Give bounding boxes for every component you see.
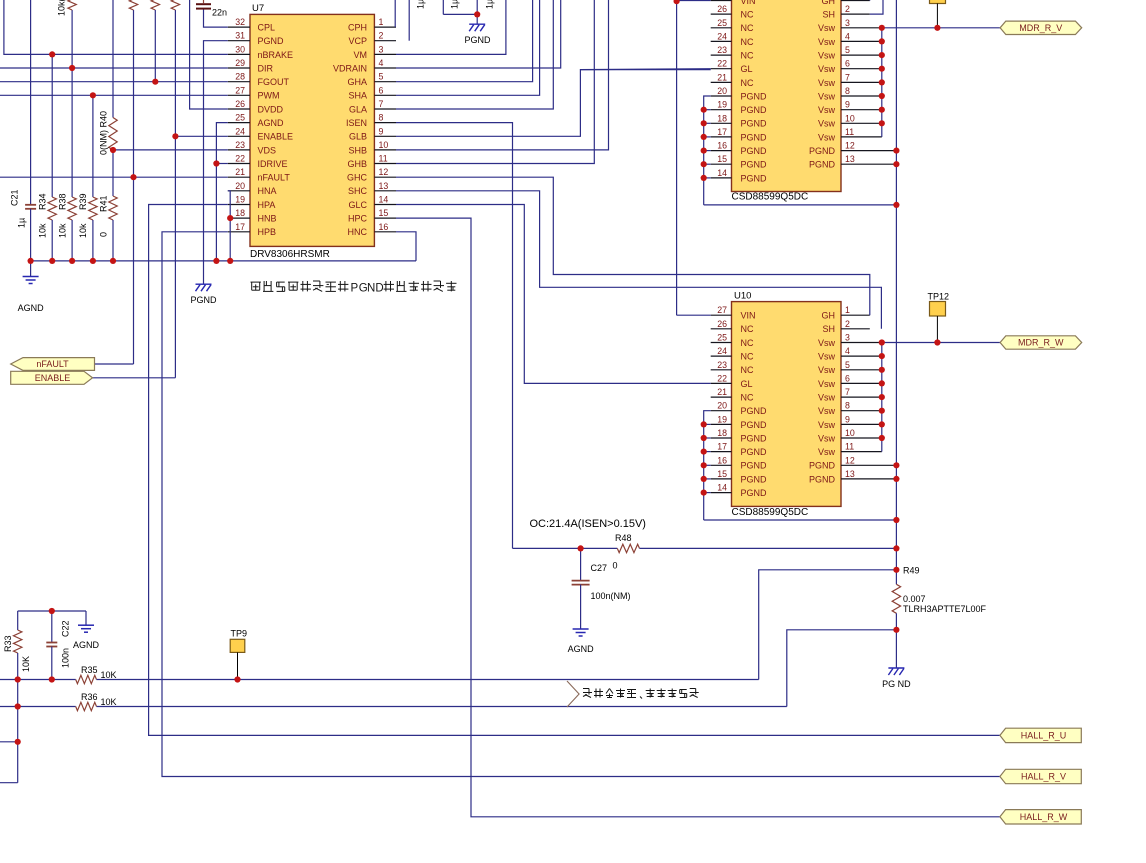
svg-text:nBRAKE: nBRAKE (258, 50, 294, 60)
svg-text:HALL_R_W: HALL_R_W (1020, 812, 1068, 822)
transistor module U10 CSD88599Q5DC body (732, 291, 842, 519)
wire PGND pin31 drop to PGND symbol (204, 41, 228, 285)
U10 pin 7 Vsw (right) (818, 387, 882, 402)
ground PGND symbol below U7 (190, 284, 217, 305)
U7 pin 8 ISEN (right) (346, 113, 396, 128)
svg-text:CSD88599Q5DC: CSD88599Q5DC (732, 507, 809, 518)
svg-text:C27: C27 (591, 563, 608, 573)
U7 pin 28 FGOUT (left) (228, 72, 290, 87)
wire nFAULT column (95, 10, 134, 364)
svg-text:22: 22 (235, 154, 245, 164)
svg-text:8: 8 (845, 401, 850, 411)
U7 pin 27 PWM (left) (228, 85, 280, 100)
wire MDR_R_W net from U10 Vsw pin3 (882, 342, 1000, 344)
svg-text:10k: 10k (38, 223, 48, 238)
capacitor (cut) column to PGND top (443, 0, 477, 14)
U7 pin 21 nFAULT (left) (228, 167, 291, 182)
svg-text:CSD88599Q5DC: CSD88599Q5DC (732, 192, 809, 203)
test point TP11 (cut at top) (930, 0, 946, 28)
svg-text:11: 11 (845, 127, 854, 137)
U10 pin 17 PGND (left) (711, 442, 767, 457)
wire GHC pin12 to U10 GH pin1 (396, 177, 870, 315)
svg-text:AGND: AGND (258, 118, 285, 128)
svg-text:PGND: PGND (809, 146, 836, 156)
wire AGND pin25 / IDRIVE pin22 riser (216, 123, 227, 261)
svg-text:ENABLE: ENABLE (35, 373, 71, 383)
svg-text:SH: SH (822, 324, 835, 334)
svg-text:7: 7 (379, 99, 384, 109)
svg-text:5: 5 (845, 360, 850, 370)
net flag HALL_R_V (1000, 769, 1081, 783)
svg-text:SHB: SHB (348, 145, 367, 155)
wire nFAULT row pin21 to left edge (0, 176, 228, 178)
U7 pin 5 GHA (right) (347, 72, 396, 87)
svg-text:Vsw: Vsw (818, 23, 836, 33)
svg-text:13: 13 (845, 469, 855, 479)
U10 pin 22 GL (left) (711, 373, 753, 388)
resistor R35 10K hall filter (0, 665, 759, 684)
op-amp U7 gate driver DRV8306HRSMR body (250, 3, 374, 260)
U9 pin 16 PGND (left) (711, 141, 767, 156)
svg-text:PGND: PGND (741, 488, 768, 498)
svg-text:PGND: PGND (464, 35, 491, 45)
wire U10 pin20 PGND hook (704, 411, 711, 425)
net flag HALL_R_W (1000, 810, 1081, 824)
svg-text:21: 21 (717, 72, 727, 82)
svg-text:GL: GL (741, 379, 753, 389)
U9 pin 8 Vsw (right) (818, 86, 882, 101)
svg-text:VIN: VIN (741, 0, 756, 6)
net flag MDR_R_W (1000, 336, 1082, 349)
svg-text:MDR_R_W: MDR_R_W (1018, 338, 1064, 348)
svg-text:AGND: AGND (18, 303, 45, 313)
svg-text:SH: SH (822, 10, 835, 20)
U7 pin 7 GLA (right) (349, 99, 396, 114)
U10 pin 20 PGND (left) (711, 401, 767, 416)
svg-text:Vsw: Vsw (818, 352, 836, 362)
U10 pin 15 PGND (left) (711, 469, 767, 484)
svg-text:IDRIVE: IDRIVE (258, 159, 288, 169)
svg-text:PGND: PGND (741, 105, 768, 115)
wire GHA pin5 riser (396, 0, 533, 82)
svg-text:Vsw: Vsw (818, 78, 836, 88)
svg-text:PGND: PGND (741, 420, 768, 430)
svg-text:30: 30 (235, 44, 245, 54)
svg-text:22n: 22n (212, 8, 227, 18)
svg-text:17: 17 (235, 222, 245, 232)
svg-text:GLB: GLB (349, 132, 367, 142)
svg-text:25: 25 (717, 333, 727, 343)
svg-text:DVDD: DVDD (258, 104, 284, 114)
capacitor C27 100n(NM) (572, 548, 631, 628)
svg-text:100n: 100n (61, 648, 71, 668)
U9 pin 3 Vsw (right) (818, 18, 882, 33)
capacitor C20 22n at top (196, 0, 227, 18)
svg-text:PGND: PGND (809, 461, 836, 471)
wire U9 GL pin22 row to GLB column (580, 68, 710, 71)
svg-text:R49: R49 (903, 566, 920, 576)
U10 pin 6 Vsw (right) (818, 373, 882, 388)
svg-text:PGND: PGND (741, 474, 768, 484)
wire VM pin3 riser (396, 0, 506, 54)
svg-text:Vsw: Vsw (818, 365, 836, 375)
svg-text:1µ: 1µ (485, 0, 495, 9)
capacitor (cut) second column to PGND top (477, 0, 494, 14)
svg-text:12: 12 (845, 455, 855, 465)
svg-text:24: 24 (717, 346, 727, 356)
svg-text:GHC: GHC (347, 173, 368, 183)
svg-text:24: 24 (717, 31, 727, 41)
svg-text:ISEN: ISEN (346, 118, 367, 128)
U9 pin 26 NC (left) (711, 4, 754, 19)
svg-text:1: 1 (845, 305, 850, 315)
U7 pin 12 GHC (right) (347, 167, 396, 182)
wire SHC pin13 to U10 SH pin2 (396, 191, 881, 329)
svg-text:PGND: PGND (741, 433, 768, 443)
svg-text:AGND: AGND (568, 644, 595, 654)
wire GHB pin11 riser (396, 0, 594, 164)
svg-text:25: 25 (717, 18, 727, 28)
svg-text:PG ND: PG ND (882, 679, 911, 689)
svg-text:R48: R48 (615, 533, 632, 543)
U9 pin 4 Vsw (right) (818, 31, 882, 46)
U9 pin 14 PGND (left) (711, 168, 767, 183)
svg-text:0.007: 0.007 (903, 594, 926, 604)
wire SHB pin10 riser (396, 0, 609, 150)
svg-text:9: 9 (379, 126, 384, 136)
U10 pin 12 PGND (right) (809, 455, 896, 470)
svg-text:31: 31 (235, 31, 245, 41)
U10 pin 21 NC (left) (711, 387, 754, 402)
svg-text:MDR_R_V: MDR_R_V (1019, 23, 1062, 33)
svg-text:16: 16 (379, 222, 389, 232)
svg-text:2: 2 (379, 31, 384, 41)
wire MDR_R_V net from U9 Vsw pin3 (882, 27, 1000, 29)
svg-text:16: 16 (717, 455, 727, 465)
svg-text:Vsw: Vsw (818, 420, 836, 430)
wire U9 SH pin2 riser (870, 0, 883, 14)
U10 pin 18 PGND (left) (711, 428, 767, 443)
svg-text:R38: R38 (58, 193, 68, 210)
svg-text:11: 11 (845, 442, 854, 452)
U10 pin 27 VIN (left) (711, 305, 756, 320)
pull resistor (cut) on nFAULT column (129, 0, 137, 10)
U9 pin 13 PGND (right) (809, 154, 896, 169)
svg-text:3: 3 (845, 333, 850, 343)
svg-text:27: 27 (235, 85, 245, 95)
U10 pin 9 Vsw (right) (818, 414, 882, 429)
svg-text:P: P (351, 283, 359, 295)
svg-text:GH: GH (822, 311, 836, 321)
U9 pin 15 PGND (left) (711, 154, 767, 169)
U9 pin 11 Vsw (right) (818, 127, 882, 142)
ground PGND symbol top right of U7 (464, 14, 491, 45)
resistor R36 10K hall filter (0, 692, 787, 711)
U9 pin 17 PGND (left) (711, 127, 767, 142)
svg-text:PGND: PGND (258, 36, 285, 46)
svg-text:Vsw: Vsw (818, 406, 836, 416)
svg-text:Vsw: Vsw (818, 91, 836, 101)
svg-text:HNB: HNB (258, 214, 277, 224)
svg-text:15: 15 (717, 469, 727, 479)
svg-text:1µ: 1µ (450, 0, 460, 9)
U7 pin 30 nBRAKE (left) (228, 44, 293, 59)
wire GLA pin7 riser (396, 0, 553, 109)
svg-text:7: 7 (845, 72, 850, 82)
U10 pin 24 NC (left) (711, 346, 754, 361)
transistor module U9 CSD88599Q5DC body (cut at top) (732, 0, 842, 203)
wire HNA pin20 to HNB pin18 to AGND bus (228, 191, 230, 261)
svg-text:nFAULT: nFAULT (258, 173, 291, 183)
wire GLC pin14 to U10 GL pin22 (396, 205, 711, 384)
U7 pin 2 VCP (right) (348, 31, 396, 46)
net flag MDR_R_V (1000, 21, 1082, 34)
U7 pin 32 CPL (left) (228, 17, 275, 32)
U10 pin 25 NC (left) (711, 333, 754, 348)
svg-text:HPC: HPC (348, 214, 368, 224)
wire R36 sense row to R49 bottom junction (787, 630, 897, 707)
wire U9 GH pin1 riser (869, 0, 871, 2)
svg-text:SHC: SHC (348, 186, 368, 196)
U10 pin 4 Vsw (right) (818, 346, 882, 361)
U10 pin 11 Vsw (right) (818, 442, 882, 457)
net flag ENABLE (11, 371, 93, 384)
svg-text:Vsw: Vsw (818, 447, 836, 457)
U9 pin 19 PGND (left) (711, 100, 767, 115)
U10 pin 3 Vsw (right) (818, 333, 882, 348)
wire GLB pin9 to U9 GL pin22 (396, 70, 711, 137)
svg-text:Vsw: Vsw (818, 393, 836, 403)
svg-text:18: 18 (235, 208, 245, 218)
U9 pin 9 Vsw (right) (818, 100, 882, 115)
U7 pin 23 VDS (left) (228, 140, 276, 155)
svg-text:20: 20 (717, 401, 727, 411)
svg-text:N: N (367, 283, 375, 295)
svg-text:19: 19 (717, 100, 727, 110)
svg-text:0: 0 (99, 232, 109, 237)
svg-text:32: 32 (235, 17, 245, 27)
wire HPA pin19 column to HALL_R_U row (149, 205, 1000, 736)
svg-text:R33: R33 (3, 635, 13, 652)
U10 pin 13 PGND (right) (809, 469, 896, 484)
svg-text:PGND: PGND (741, 91, 768, 101)
svg-text:Vsw: Vsw (818, 64, 836, 74)
wire U9 PGND bracket left (704, 110, 897, 205)
svg-text:1µ: 1µ (416, 0, 426, 9)
U9 pin 2 SH (right) (822, 4, 869, 19)
wire CPL pin32 to capacitor C20 (204, 10, 228, 28)
U7 pin 6 SHA (right) (348, 85, 396, 100)
svg-text:18: 18 (717, 428, 727, 438)
svg-text:CPL: CPL (258, 23, 276, 33)
wire HPC pin15 column to HALL_R_W row (396, 218, 1000, 817)
svg-text:7: 7 (845, 387, 850, 397)
svg-text:ENABLE: ENABLE (258, 132, 294, 142)
svg-text:14: 14 (379, 195, 389, 205)
wire U10 PGND bracket left (704, 424, 897, 520)
U9 pin 27 VIN (left) (711, 0, 756, 6)
svg-text:9: 9 (845, 100, 850, 110)
resistor R41 0 (99, 150, 118, 261)
svg-text:U7: U7 (252, 3, 264, 14)
svg-text:14: 14 (717, 168, 727, 178)
svg-text:13: 13 (379, 181, 389, 191)
svg-text:NC: NC (741, 365, 754, 375)
U9 pin 6 Vsw (right) (818, 59, 882, 74)
svg-text:C21: C21 (10, 189, 20, 206)
svg-text:16: 16 (717, 141, 727, 151)
U10 pin 19 PGND (left) (711, 414, 767, 429)
svg-text:R35: R35 (81, 665, 98, 675)
svg-text:HALL_R_U: HALL_R_U (1021, 731, 1067, 741)
svg-text:DRV8306HRSMR: DRV8306HRSMR (250, 249, 330, 260)
wire ENABLE column (93, 10, 228, 378)
svg-text:28: 28 (235, 72, 245, 82)
U7 pin 31 PGND (left) (228, 31, 284, 46)
wire reference top rail R33/C22 (18, 610, 86, 612)
U9 pin 10 Vsw (right) (818, 113, 882, 128)
U7 pin 11 GHB (right) (347, 154, 396, 169)
svg-text:D: D (375, 283, 383, 295)
capacitor C21 1u column (10, 0, 37, 261)
svg-text:TP12: TP12 (928, 292, 950, 302)
ground PGND symbol under R49 (882, 630, 911, 689)
svg-text:VDRAIN: VDRAIN (333, 63, 367, 73)
U10 pin 5 Vsw (right) (818, 360, 882, 375)
wire VIN top rail to U9 pin27 and U10 pin27 (677, 0, 711, 315)
wire PGND long vertical right side (895, 0, 897, 548)
svg-text:3: 3 (379, 44, 384, 54)
svg-text:Vsw: Vsw (818, 132, 836, 142)
U7 pin 17 HPB (left) (228, 222, 276, 237)
svg-text:1µ: 1µ (17, 218, 27, 228)
svg-text:11: 11 (379, 154, 388, 164)
wire U9 pin20 PGND hook (704, 96, 711, 110)
svg-text:12: 12 (845, 141, 855, 151)
svg-text:23: 23 (717, 45, 727, 55)
resistor R39 10k (78, 95, 97, 261)
svg-text:22: 22 (717, 373, 727, 383)
svg-text:10k: 10k (78, 223, 88, 238)
test point TP9 (230, 629, 247, 680)
svg-text:8: 8 (379, 113, 384, 123)
U7 pin 3 VM (right) (354, 44, 397, 59)
U7 pin 29 DIR (left) (228, 58, 274, 73)
svg-text:NC: NC (741, 324, 754, 334)
svg-text:HNC: HNC (348, 227, 368, 237)
wire U10 Vsw bus (881, 343, 883, 452)
svg-text:21: 21 (235, 167, 245, 177)
net flag nFAULT (11, 358, 95, 371)
U9 pin 22 GL (left) (711, 59, 753, 74)
U7 pin 24 ENABLE (left) (228, 126, 293, 141)
U7 pin 26 DVDD (left) (228, 99, 284, 114)
wire SHA pin6 riser (396, 0, 540, 95)
svg-text:0: 0 (613, 561, 618, 571)
wire DVDD pin26 riser to top (190, 0, 228, 109)
svg-text:5: 5 (379, 72, 384, 82)
capacitor C22 100n (46, 611, 70, 680)
wire AGND bus below U7 (31, 260, 416, 262)
wire FGOUT row pin28 to left edge (0, 81, 228, 83)
svg-text:PGND: PGND (809, 474, 836, 484)
ground AGND symbol right of C22 (73, 611, 100, 650)
svg-text:PWM: PWM (258, 91, 280, 101)
svg-text:2: 2 (845, 319, 850, 329)
svg-text:13: 13 (845, 154, 855, 164)
wire reference column joins at left (0, 680, 18, 783)
svg-text:25: 25 (235, 113, 245, 123)
U7 pin 16 HNC (right) (348, 222, 397, 237)
svg-text:PGND: PGND (741, 146, 768, 156)
wire VCP pin2 riser (408, 0, 410, 41)
svg-text:4: 4 (845, 31, 850, 41)
svg-text:R34: R34 (38, 193, 48, 210)
U7 pin 13 SHC (right) (348, 181, 396, 196)
svg-text:18: 18 (717, 113, 727, 123)
U10 pin 10 Vsw (right) (818, 428, 882, 443)
svg-text:9: 9 (845, 414, 850, 424)
svg-text:Vsw: Vsw (818, 338, 836, 348)
U10 pin 23 NC (left) (711, 360, 754, 375)
svg-text:Vsw: Vsw (818, 119, 836, 129)
svg-text:GH: GH (822, 0, 836, 6)
wire AGND bus riser to HNC pin16 (396, 232, 416, 261)
svg-text:VM: VM (354, 50, 368, 60)
label OC current note (530, 518, 646, 530)
U9 pin 21 NC (left) (711, 72, 754, 87)
svg-text:23: 23 (235, 140, 245, 150)
resistor R33 10K (3, 611, 31, 680)
svg-text:27: 27 (717, 305, 727, 315)
U9 pin 25 NC (left) (711, 18, 754, 33)
svg-text:6: 6 (845, 373, 850, 383)
U10 pin 1 GH (right) (822, 305, 870, 320)
U7 pin 22 IDRIVE (left) (228, 154, 288, 169)
svg-text:10k(N: 10k(N (57, 0, 67, 16)
svg-text:PGND: PGND (741, 461, 768, 471)
U7 pin 1 CPH (right) (348, 17, 396, 32)
svg-text:nFAULT: nFAULT (36, 359, 69, 369)
svg-text:TP9: TP9 (231, 629, 248, 639)
resistor R34 10k (38, 54, 57, 261)
label equal-length routing note (Japanese) (583, 689, 699, 699)
svg-text:PGND: PGND (741, 173, 768, 183)
U7 pin 20 HNA (left) (228, 181, 277, 196)
ground AGND symbol bottom left of U7 (18, 261, 45, 313)
svg-text:GHA: GHA (347, 77, 367, 87)
net flag HALL_R_U (1000, 728, 1081, 742)
svg-text:Vsw: Vsw (818, 105, 836, 115)
svg-text:23: 23 (717, 360, 727, 370)
svg-text:Vsw: Vsw (818, 51, 836, 61)
U7 pin 14 GLC (right) (348, 195, 396, 210)
svg-text:5: 5 (845, 45, 850, 55)
svg-text:C22: C22 (61, 620, 71, 637)
svg-text:PGND: PGND (741, 160, 768, 170)
U10 pin 16 PGND (left) (711, 455, 767, 470)
U7 pin 18 HNB (left) (228, 208, 277, 223)
svg-text:SHA: SHA (348, 91, 367, 101)
svg-text:21: 21 (717, 387, 727, 397)
U9 pin 1 GH (right) (822, 0, 870, 6)
svg-text:20: 20 (717, 86, 727, 96)
svg-text:U10: U10 (734, 291, 751, 302)
svg-text:24: 24 (235, 126, 245, 136)
U10 pin 26 NC (left) (711, 319, 754, 334)
svg-text:20: 20 (235, 181, 245, 191)
U9 pin 12 PGND (right) (809, 141, 896, 156)
